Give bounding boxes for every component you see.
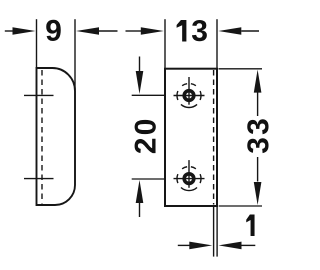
dimension 33 bottom arrow	[257, 157, 259, 182]
dimension 1 right arrow	[219, 242, 242, 250]
dim 20 bottom extension line	[132, 178, 164, 180]
extension line left of dim 9	[36, 19, 38, 68]
dimension 9 left arrow	[5, 30, 13, 32]
dim 33 top extension line	[219, 68, 263, 70]
side view hole 1 centerline	[24, 94, 54, 96]
dimension 9 right arrow	[76, 27, 99, 35]
dimension 1 label	[246, 214, 254, 236]
dim 1 right extension line	[216, 206, 218, 257]
side view outline	[37, 68, 76, 205]
dimension 1 left arrow	[178, 244, 190, 246]
extension line right of dim 13	[216, 19, 218, 68]
front view plate outline	[165, 69, 217, 206]
dimension 33 top arrow	[254, 70, 262, 93]
hole 2	[174, 160, 205, 191]
dimension 9 label	[46, 20, 61, 41]
extension line left of dim 13	[164, 19, 166, 68]
dim 33 bottom extension line	[219, 205, 262, 207]
dimension 13 label	[177, 20, 207, 42]
dimension 33 label (rotated)	[247, 119, 268, 153]
dimension 20 bottom arrow	[136, 180, 144, 203]
hole 1	[174, 77, 205, 108]
dim 1 left extension line	[213, 206, 215, 257]
dimension 20 label (rotated)	[135, 120, 156, 153]
extension line right of dim 9	[74, 19, 76, 90]
dimension 13 left arrow	[126, 30, 142, 32]
front view bend line (dashed)	[213, 70, 215, 205]
dim 20 top extension line	[132, 94, 164, 96]
dimension 13 right arrow	[218, 27, 241, 35]
dimension 20 top arrow	[139, 57, 141, 72]
side view hole 2 centerline	[24, 178, 54, 180]
side view hidden edge (dashed)	[41, 70, 43, 204]
